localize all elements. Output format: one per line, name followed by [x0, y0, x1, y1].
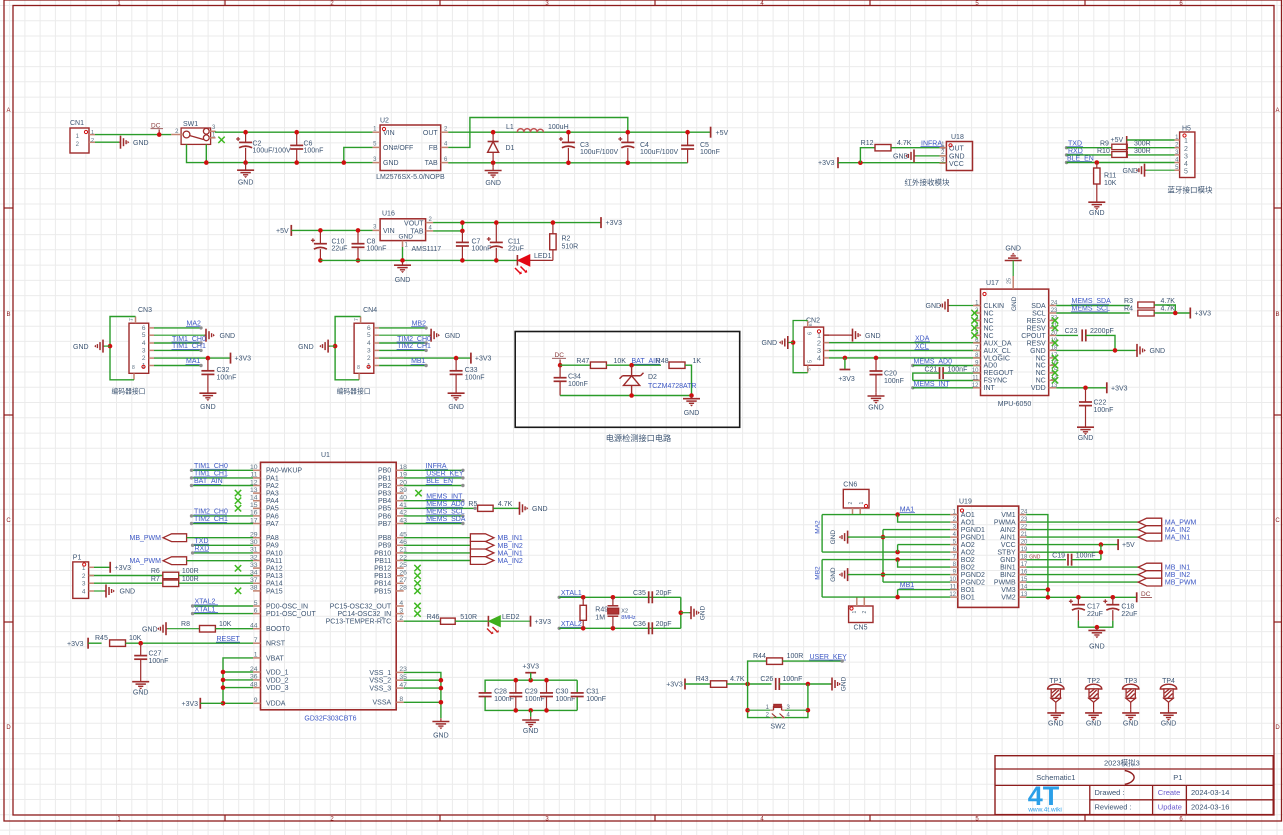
wire — [898, 560, 951, 568]
svg-text:14: 14 — [250, 495, 258, 502]
svg-text:AO1: AO1 — [961, 520, 975, 527]
capacitor C3 — [559, 132, 619, 163]
no-connect — [415, 490, 421, 496]
svg-text:MA2: MA2 — [815, 520, 822, 534]
svg-text:GND: GND — [868, 405, 884, 412]
svg-text:PB1: PB1 — [378, 475, 391, 482]
wire — [126, 642, 254, 644]
capacitor C26 — [760, 676, 832, 690]
wire — [1026, 545, 1101, 560]
svg-text:MPU-6050: MPU-6050 — [998, 401, 1032, 408]
net label INFRA — [921, 140, 945, 149]
wire — [88, 642, 102, 644]
svg-text:PB2: PB2 — [378, 483, 391, 490]
wire — [727, 683, 772, 685]
net label TIM2_CH1 — [379, 343, 431, 352]
connector CN1 — [70, 120, 95, 153]
resistor R8 — [168, 621, 254, 632]
net flag MB_IN2 — [1026, 571, 1190, 579]
junction — [895, 512, 900, 517]
svg-text:MB_PWM: MB_PWM — [1165, 580, 1197, 587]
svg-text:GND: GND — [830, 567, 837, 582]
svg-text:PC14-OSC32_IN: PC14-OSC32_IN — [337, 611, 391, 618]
svg-text:20pF: 20pF — [656, 621, 672, 628]
svg-text:PA5: PA5 — [266, 506, 279, 513]
svg-text:PB15: PB15 — [374, 588, 391, 595]
svg-text:6: 6 — [807, 332, 813, 335]
svg-text:PB8: PB8 — [378, 535, 391, 542]
junction — [454, 356, 459, 361]
svg-text:R11: R11 — [1104, 173, 1116, 180]
svg-text:+3V3: +3V3 — [535, 619, 552, 626]
resistor R3 — [1124, 298, 1175, 308]
svg-text:LM2576SX-5.0/NOPB: LM2576SX-5.0/NOPB — [376, 174, 445, 181]
svg-text:D: D — [6, 725, 11, 731]
net label TIM2_CH1 — [190, 516, 253, 525]
no-connect — [218, 137, 224, 143]
zener diode D2 — [620, 365, 697, 395]
svg-text:PA9: PA9 — [266, 543, 279, 550]
wire — [822, 559, 950, 561]
svg-text:U16: U16 — [382, 211, 395, 218]
capacitor C32 — [201, 358, 236, 390]
svg-text:33: 33 — [250, 562, 258, 569]
svg-text:VM3: VM3 — [1001, 587, 1016, 594]
net label RXD — [1065, 148, 1083, 157]
power flag +3V3 — [601, 217, 622, 228]
svg-text:MB_PWM: MB_PWM — [130, 535, 162, 542]
svg-text:BO1: BO1 — [961, 595, 975, 602]
wire — [1026, 596, 1137, 598]
power flag +3V3 — [231, 353, 252, 364]
svg-text:7: 7 — [129, 318, 135, 321]
net label XDA — [829, 336, 981, 343]
wire — [916, 155, 947, 157]
junction — [626, 130, 631, 135]
svg-text:U18: U18 — [951, 134, 964, 141]
svg-text:10K: 10K — [1104, 180, 1117, 187]
svg-text:22uF: 22uF — [1121, 611, 1137, 618]
net flag MA_PWM — [130, 557, 254, 565]
svg-text:U19: U19 — [959, 499, 972, 506]
svg-text:10K: 10K — [614, 358, 627, 365]
svg-text:PA0-WKUP: PA0-WKUP — [266, 468, 302, 475]
svg-text:C: C — [1275, 518, 1280, 524]
svg-text:BOOT0: BOOT0 — [266, 626, 290, 633]
svg-text:4: 4 — [367, 340, 371, 347]
power flag +3V3 — [522, 664, 539, 681]
svg-text:A: A — [6, 108, 10, 114]
svg-text:2023模拟3: 2023模拟3 — [1104, 758, 1140, 768]
svg-text:3: 3 — [82, 581, 86, 588]
junction — [108, 344, 113, 349]
net label MEMS_AD0 — [911, 359, 952, 368]
svg-text:GND: GND — [1123, 168, 1139, 175]
junction — [204, 160, 209, 165]
wire — [329, 345, 335, 347]
svg-text:D2: D2 — [648, 374, 657, 381]
resistor R2 — [550, 223, 579, 261]
net label MEMS_SCL — [404, 509, 465, 518]
svg-text:R9: R9 — [1100, 140, 1109, 147]
ground — [132, 679, 149, 697]
svg-text:100nF: 100nF — [367, 246, 387, 253]
net label MB2 — [379, 321, 428, 330]
capacitor C23 — [1056, 328, 1115, 350]
junction — [1083, 386, 1088, 391]
wire — [1067, 162, 1175, 164]
svg-text:+3V3: +3V3 — [235, 356, 252, 363]
svg-text:R10: R10 — [1097, 148, 1110, 155]
net label BAT_AIN — [631, 358, 660, 365]
svg-text:PB5: PB5 — [378, 506, 391, 513]
svg-text:MA_PWM: MA_PWM — [1165, 520, 1197, 527]
junction — [1095, 160, 1100, 165]
svg-text:PB6: PB6 — [378, 513, 391, 520]
ground — [762, 336, 790, 349]
svg-text:6: 6 — [808, 323, 814, 326]
power flag +3V3 — [818, 157, 838, 168]
svg-text:INT: INT — [984, 385, 996, 392]
junction — [1099, 542, 1104, 547]
svg-text:20pF: 20pF — [656, 590, 672, 597]
junction — [791, 340, 796, 345]
svg-text:2: 2 — [399, 615, 403, 622]
net label XTAL1 — [191, 606, 253, 615]
wire — [606, 364, 661, 366]
ground — [824, 329, 881, 342]
svg-text:R47: R47 — [576, 358, 589, 365]
svg-text:2: 2 — [1184, 146, 1188, 153]
junction — [558, 363, 563, 368]
wire — [891, 147, 946, 149]
svg-text:AO2: AO2 — [961, 542, 975, 549]
net flag MB_IN2 — [404, 541, 523, 549]
svg-text:GND: GND — [841, 676, 848, 691]
switch SW2 — [748, 704, 808, 730]
svg-text:PB4: PB4 — [378, 498, 391, 505]
svg-text:AO2: AO2 — [961, 550, 975, 557]
svg-text:5: 5 — [367, 332, 371, 339]
wire — [560, 395, 691, 397]
svg-text:GND: GND — [1000, 557, 1016, 564]
no-connect — [235, 490, 241, 496]
no-connect — [414, 573, 420, 579]
wire — [1026, 589, 1048, 591]
net flag MA_IN1 — [1026, 533, 1190, 541]
net label MB1 — [899, 582, 914, 589]
wire — [898, 515, 951, 523]
svg-text:100uF/100V: 100uF/100V — [580, 149, 618, 156]
junction — [745, 708, 750, 713]
svg-text:MB_IN1: MB_IN1 — [498, 535, 523, 542]
svg-text:R44: R44 — [753, 653, 766, 660]
svg-text:C17: C17 — [1087, 604, 1100, 611]
ground — [199, 390, 216, 411]
svg-text:GND: GND — [73, 344, 89, 351]
wire — [95, 134, 171, 136]
svg-text:Drawed :: Drawed : — [1095, 788, 1125, 797]
capacitor C2 — [236, 132, 291, 162]
no-connect — [1052, 355, 1058, 361]
no-connect — [971, 317, 977, 323]
net flag MB_IN1 — [1026, 563, 1190, 571]
svg-text:8MHz: 8MHz — [621, 615, 636, 621]
power flag +5V — [711, 127, 729, 138]
svg-text:VDD_3: VDD_3 — [266, 685, 289, 692]
diode D1 — [488, 132, 515, 163]
svg-text:STBY: STBY — [997, 550, 1016, 557]
junction — [843, 356, 848, 361]
svg-text:BO1: BO1 — [961, 587, 975, 594]
capacitor C36 — [633, 621, 672, 634]
wire — [1127, 139, 1175, 141]
svg-text:AIN2: AIN2 — [1000, 527, 1016, 534]
svg-text:R48: R48 — [656, 358, 669, 365]
svg-text:NC: NC — [1036, 355, 1046, 362]
svg-text:PA2: PA2 — [266, 483, 279, 490]
svg-text:+3V3: +3V3 — [67, 641, 84, 648]
svg-text:P1: P1 — [73, 555, 82, 562]
ground — [1047, 710, 1064, 728]
ground — [73, 340, 105, 353]
svg-text:BO2: BO2 — [961, 565, 975, 572]
svg-text:SW2: SW2 — [770, 724, 785, 731]
net label MA1 — [154, 358, 203, 367]
svg-text:4.7K: 4.7K — [1161, 298, 1176, 305]
svg-text:10: 10 — [949, 577, 956, 583]
svg-text:VSS_1: VSS_1 — [369, 670, 391, 677]
svg-text:PA7: PA7 — [266, 521, 279, 528]
title block — [995, 756, 1273, 815]
svg-text:PA1: PA1 — [266, 475, 279, 482]
net label MB2 — [815, 560, 823, 598]
svg-text:AIN1: AIN1 — [1000, 535, 1016, 542]
connector CN4 — [354, 307, 379, 380]
power flag +5V — [1118, 539, 1135, 550]
net flag MA_IN1 — [404, 549, 523, 557]
svg-text:BIN1: BIN1 — [1000, 565, 1016, 572]
svg-text:R43: R43 — [696, 676, 709, 683]
svg-text:PGND1: PGND1 — [961, 527, 985, 534]
svg-text:C29: C29 — [525, 689, 538, 696]
svg-text:2200pF: 2200pF — [1090, 328, 1114, 335]
wire — [110, 317, 136, 380]
svg-text:C26: C26 — [760, 676, 773, 683]
junction — [895, 595, 900, 600]
net label MA1 — [899, 507, 915, 514]
capacitor C29 — [509, 680, 544, 710]
svg-text:C10: C10 — [332, 239, 345, 246]
svg-text:2: 2 — [82, 573, 86, 580]
svg-text:+3V3: +3V3 — [115, 565, 132, 572]
svg-text:AO1: AO1 — [961, 512, 975, 519]
svg-text:GND: GND — [926, 303, 942, 310]
svg-text:12: 12 — [972, 383, 979, 389]
svg-text:GND: GND — [700, 605, 707, 620]
svg-text:R3: R3 — [1124, 298, 1133, 305]
junction — [138, 641, 143, 646]
svg-text:NC: NC — [984, 310, 994, 317]
capacitor C34 — [554, 365, 588, 395]
svg-text:28: 28 — [399, 585, 407, 592]
svg-text:R45: R45 — [95, 635, 108, 642]
svg-text:2024-03-16: 2024-03-16 — [1191, 803, 1229, 812]
svg-text:2: 2 — [862, 611, 868, 614]
svg-text:12: 12 — [949, 592, 956, 598]
resistor R4 — [1124, 306, 1175, 316]
svg-text:8: 8 — [357, 365, 360, 371]
wire — [1012, 261, 1014, 277]
svg-text:CN1: CN1 — [70, 120, 84, 127]
net label TIM2_CH0 — [190, 509, 253, 518]
svg-text:5: 5 — [1184, 169, 1188, 176]
svg-text:编码器接口: 编码器接口 — [112, 387, 146, 396]
no-connect — [1052, 362, 1058, 368]
resistor R45 — [95, 635, 142, 646]
svg-text:1: 1 — [852, 611, 858, 614]
net label MEMS_SDA — [404, 516, 466, 525]
net label XTAL2 — [191, 599, 253, 608]
junction — [685, 130, 690, 135]
wire — [783, 660, 843, 662]
svg-text:GND: GND — [298, 344, 314, 351]
junction — [1095, 625, 1100, 630]
ground — [683, 396, 700, 418]
resistor R43 — [696, 676, 745, 687]
svg-text:PA4: PA4 — [266, 498, 279, 505]
svg-text:编码器接口: 编码器接口 — [337, 387, 371, 396]
svg-text:+3V3: +3V3 — [182, 701, 199, 708]
svg-text:10K: 10K — [219, 621, 232, 628]
svg-text:100R: 100R — [182, 576, 199, 583]
svg-text:100nF: 100nF — [884, 378, 904, 385]
svg-text:4: 4 — [142, 340, 146, 347]
svg-text:PB3: PB3 — [378, 491, 391, 498]
svg-text:BO2: BO2 — [961, 557, 975, 564]
wire — [187, 144, 373, 162]
svg-text:VDD_2: VDD_2 — [266, 677, 289, 684]
wire — [748, 684, 808, 718]
svg-text:B: B — [1275, 312, 1279, 318]
svg-text:25: 25 — [1007, 278, 1013, 284]
svg-text:电源检测接口电路: 电源检测接口电路 — [606, 433, 672, 443]
power flag +3V3 — [666, 679, 685, 690]
svg-text:VOUT: VOUT — [404, 220, 424, 227]
svg-text:C34: C34 — [568, 374, 581, 381]
net label MA2 — [154, 321, 203, 330]
svg-text:100nF: 100nF — [568, 381, 588, 388]
svg-text:A: A — [1275, 108, 1279, 114]
net label TIM1_CH1 — [190, 471, 253, 480]
svg-text:MB_IN1: MB_IN1 — [1165, 565, 1190, 572]
ground — [1085, 710, 1102, 728]
junction — [294, 130, 299, 135]
svg-text:C32: C32 — [217, 367, 230, 374]
svg-text:C31: C31 — [586, 689, 599, 696]
svg-text:+3V3: +3V3 — [666, 682, 683, 689]
svg-text:GND: GND — [532, 506, 548, 513]
svg-text:PD0-OSC_IN: PD0-OSC_IN — [266, 603, 308, 610]
svg-text:GND: GND — [1078, 435, 1094, 442]
no-connect — [414, 565, 420, 571]
ground — [831, 676, 848, 691]
svg-text:PWMA: PWMA — [994, 520, 1016, 527]
wire — [94, 566, 110, 568]
svg-text:VSS_3: VSS_3 — [369, 686, 391, 693]
capacitor C31 — [571, 689, 606, 704]
net label TXD — [191, 538, 253, 547]
capacitor C21 — [913, 367, 981, 381]
svg-text:2: 2 — [848, 502, 854, 505]
svg-text:NC: NC — [1036, 378, 1046, 385]
LED LED1 — [515, 253, 553, 275]
wire — [1026, 515, 1048, 598]
svg-text:PA3: PA3 — [266, 491, 279, 498]
svg-text:100R: 100R — [182, 568, 199, 575]
svg-text:GND: GND — [445, 333, 461, 340]
wire — [793, 321, 808, 373]
net label MEMS_INT — [911, 381, 950, 390]
junction — [629, 393, 634, 398]
svg-text:C22: C22 — [1094, 400, 1107, 407]
svg-text:100nF: 100nF — [1076, 553, 1096, 560]
svg-text:PB0: PB0 — [378, 468, 391, 475]
svg-text:PGND2: PGND2 — [961, 580, 985, 587]
svg-text:ON#/OFF: ON#/OFF — [383, 145, 413, 152]
svg-text:GND: GND — [142, 626, 158, 633]
test point TP2 — [1085, 678, 1101, 710]
junction — [439, 678, 444, 683]
switch SW1 — [171, 121, 216, 144]
net flag MB_PWM — [1026, 578, 1196, 586]
svg-text:C18: C18 — [1121, 604, 1134, 611]
svg-text:CN5: CN5 — [853, 625, 867, 632]
ground — [893, 149, 916, 162]
svg-text:R8: R8 — [181, 621, 190, 628]
svg-text:PB12: PB12 — [374, 566, 391, 573]
wire — [95, 141, 119, 143]
no-connect — [414, 610, 420, 616]
junction — [806, 682, 811, 687]
svg-text:C19: C19 — [1052, 553, 1065, 560]
wire — [829, 357, 981, 359]
wire — [216, 130, 373, 133]
wire — [685, 683, 711, 685]
svg-text:3: 3 — [367, 347, 371, 354]
capacitor C11 — [487, 223, 524, 261]
svg-text:MB2: MB2 — [815, 566, 822, 580]
svg-text:+3V3: +3V3 — [522, 664, 539, 671]
no-connect — [414, 588, 420, 594]
svg-text:FSYNC: FSYNC — [984, 378, 1008, 385]
no-connect — [1052, 377, 1058, 383]
junction — [494, 220, 499, 225]
svg-text:2: 2 — [91, 138, 94, 144]
ground — [237, 163, 254, 187]
svg-text:NC: NC — [984, 333, 994, 340]
net label MA2 — [815, 515, 823, 553]
capacitor C17 — [1069, 597, 1103, 620]
svg-text:2: 2 — [142, 355, 146, 362]
wire — [822, 514, 950, 516]
svg-text:C23: C23 — [1065, 328, 1078, 335]
resistor R11 — [1094, 163, 1117, 200]
ground — [830, 567, 849, 582]
ground — [518, 502, 548, 515]
net flag MA_IN2 — [1026, 526, 1190, 534]
svg-text:5: 5 — [807, 360, 813, 363]
